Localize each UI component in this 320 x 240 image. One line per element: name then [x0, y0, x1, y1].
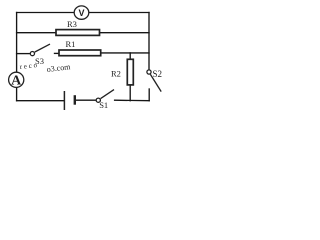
- svg-text:R1: R1: [66, 39, 76, 49]
- wire bottom edge right (S1 to corner): [115, 99, 150, 102]
- switch S2: [147, 70, 161, 92]
- wire top edge right of voltmeter: [89, 12, 149, 14]
- wire left edge upper (top corner to ammeter): [16, 13, 18, 73]
- switch S1: [96, 90, 114, 103]
- svg-text:o3.com: o3.com: [46, 62, 71, 74]
- wire bottom edge middle (battery to S1): [76, 99, 96, 101]
- svg-text:A: A: [11, 73, 22, 88]
- svg-text:V: V: [78, 8, 84, 18]
- wire R1 branch right: [101, 52, 149, 54]
- battery cell: [64, 91, 74, 110]
- resistor R1: [59, 50, 101, 56]
- wire R3 branch right: [100, 32, 150, 34]
- wire right edge upper (top corner to S2): [148, 13, 150, 70]
- voltmeter U-V: [74, 6, 89, 19]
- svg-text:R3: R3: [67, 19, 77, 29]
- wire S3 to R1 stub: [55, 52, 60, 54]
- resistor R2: [127, 59, 133, 85]
- wire R3 branch left: [17, 32, 56, 34]
- wire R2 branch top lead: [129, 53, 131, 59]
- ammeter U-A: [9, 72, 24, 88]
- wire R1 branch left stub to S3: [17, 53, 31, 55]
- svg-text:r e c o: r e c o: [19, 61, 38, 71]
- wire left edge lower (ammeter to bottom corner): [16, 88, 18, 101]
- wire right edge lower (S2 to bottom corner): [148, 89, 150, 101]
- wire R2 branch bottom lead: [129, 85, 131, 101]
- wire bottom edge left (corner to battery): [17, 100, 64, 102]
- svg-text:S2: S2: [153, 69, 163, 79]
- wire top edge left of voltmeter: [17, 12, 75, 14]
- svg-text:R2: R2: [111, 68, 121, 78]
- svg-text:S1: S1: [99, 100, 108, 110]
- switch S3: [30, 44, 50, 56]
- resistor R3: [56, 30, 100, 36]
